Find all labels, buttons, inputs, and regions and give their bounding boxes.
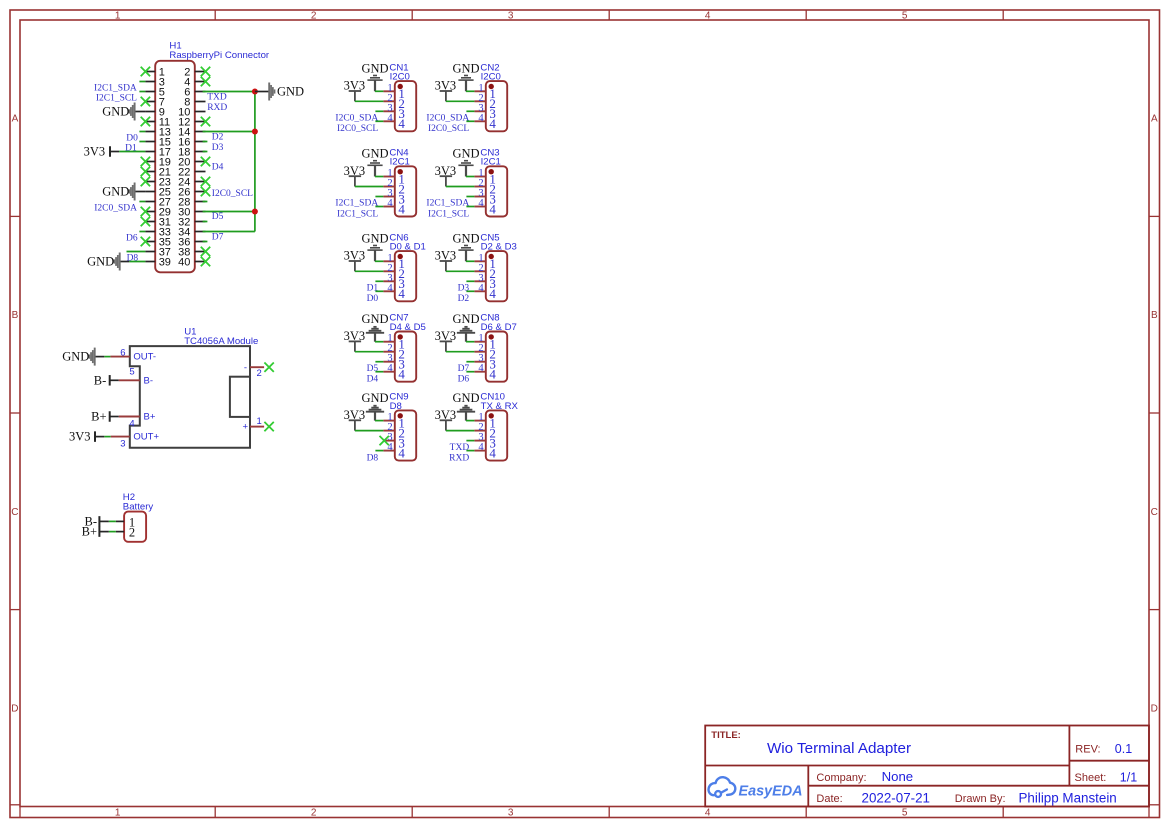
wire 3V3 to CN3 pin 2 bbox=[446, 186, 475, 188]
svg-text:None: None bbox=[882, 769, 914, 784]
svg-text:GND: GND bbox=[452, 312, 479, 326]
connector CN4 body bbox=[395, 166, 416, 216]
connector H2 body bbox=[124, 512, 146, 542]
svg-text:3: 3 bbox=[508, 11, 514, 22]
svg-text:4: 4 bbox=[478, 283, 484, 294]
svg-text:I2C0_SDA: I2C0_SDA bbox=[335, 114, 378, 124]
svg-text:I2C1_SDA: I2C1_SDA bbox=[335, 199, 378, 209]
svg-text:GND: GND bbox=[452, 147, 479, 161]
wire stub CN2 pin 4 bbox=[466, 120, 474, 122]
CN4 pin stubs bbox=[383, 177, 394, 207]
svg-text:GND: GND bbox=[87, 255, 114, 269]
svg-text:B-: B- bbox=[144, 375, 154, 386]
wire 3V3 to CN4 pin 2 bbox=[355, 186, 384, 188]
connector CN8 body bbox=[486, 332, 507, 382]
wire ground to CN10 pin 1 bbox=[466, 420, 474, 422]
svg-text:TXD: TXD bbox=[207, 93, 227, 103]
svg-text:4: 4 bbox=[705, 11, 711, 22]
svg-text:4: 4 bbox=[387, 363, 393, 374]
svg-text:A: A bbox=[12, 114, 19, 125]
svg-text:B+: B+ bbox=[91, 410, 106, 424]
CN4 inside pin numbers bbox=[398, 171, 405, 216]
svg-text:2: 2 bbox=[257, 368, 262, 379]
H1 left pin stubs bbox=[145, 72, 155, 262]
wire 3V3 to H1 pin 17 bbox=[119, 151, 145, 153]
H2 pin 1 stub bbox=[116, 520, 124, 522]
wire stub CN4 pin 4 bbox=[375, 206, 383, 208]
svg-text:4: 4 bbox=[489, 446, 496, 461]
CN4 pin-1 dot bbox=[398, 169, 403, 174]
CN3 outside pin numbers bbox=[478, 168, 484, 209]
wire ground to CN1 pin 1 bbox=[375, 90, 383, 92]
CN10 pin-1 dot bbox=[489, 413, 494, 418]
CN3 inside pin numbers bbox=[489, 171, 496, 216]
wire 3V3 to CN7 pin 2 bbox=[355, 351, 384, 353]
CN8 outside pin numbers bbox=[478, 333, 484, 374]
svg-text:1/1: 1/1 bbox=[1120, 770, 1137, 784]
wire ground to CN9 pin 1 bbox=[375, 420, 383, 422]
no-connect cross U1 pin 1 bbox=[264, 422, 273, 431]
svg-text:5: 5 bbox=[902, 808, 908, 819]
no-connect cross U1 pin 2 bbox=[264, 363, 273, 372]
CN2 pin-1 dot bbox=[489, 84, 494, 89]
CN8 pin-1 dot bbox=[489, 334, 494, 339]
wire H1 pin 34 to bus bbox=[203, 231, 255, 233]
power flag B- at H2 pin 1 bbox=[99, 520, 108, 522]
svg-text:4: 4 bbox=[398, 286, 405, 301]
wire B- to H2 pin 1 bbox=[109, 520, 116, 522]
power flag GND at H1 pin 6 bbox=[255, 91, 269, 93]
svg-text:I2C1_SCL: I2C1_SCL bbox=[96, 94, 137, 104]
svg-text:D6: D6 bbox=[458, 375, 470, 385]
svg-text:OUT+: OUT+ bbox=[133, 432, 159, 443]
junction at pin 30 wire bbox=[252, 209, 258, 215]
title block sheet row divider bbox=[808, 785, 1149, 787]
wire H1 pin 14 to bus bbox=[203, 131, 255, 133]
svg-text:D4: D4 bbox=[212, 163, 224, 173]
svg-text:1: 1 bbox=[257, 416, 262, 427]
CN6 inside pin numbers bbox=[398, 256, 405, 301]
svg-text:GND: GND bbox=[361, 391, 388, 405]
svg-text:I2C0_SCL: I2C0_SCL bbox=[212, 189, 253, 199]
svg-text:I2C0_SDA: I2C0_SDA bbox=[94, 204, 137, 214]
U1 pin 2 stub bbox=[250, 366, 264, 368]
wire stub CN7 pin 3 bbox=[375, 361, 383, 363]
svg-text:4: 4 bbox=[387, 283, 393, 294]
svg-text:B+: B+ bbox=[144, 412, 156, 423]
svg-text:D2: D2 bbox=[212, 133, 224, 143]
CN1 pin stubs bbox=[383, 91, 394, 121]
connector CN2 body bbox=[486, 81, 507, 131]
power flag GND at H1 pin 9 bbox=[135, 111, 146, 113]
svg-text:GND: GND bbox=[62, 350, 89, 364]
svg-text:GND: GND bbox=[361, 312, 388, 326]
svg-text:4: 4 bbox=[398, 446, 405, 461]
svg-text:D4: D4 bbox=[367, 375, 379, 385]
wire B+ to H2 pin 2 bbox=[109, 531, 116, 533]
svg-text:RXD: RXD bbox=[449, 453, 469, 463]
svg-text:GND: GND bbox=[452, 391, 479, 405]
wire GND to U1 pin 6 bbox=[104, 356, 110, 358]
U1 battery cell rectangle bbox=[230, 377, 250, 417]
CN5 pin stubs bbox=[474, 261, 485, 291]
svg-text:3V3: 3V3 bbox=[69, 430, 91, 444]
H1 left net stub wires bbox=[127, 82, 146, 252]
CN9 inside pin numbers bbox=[398, 416, 405, 461]
CN1 inside pin numbers bbox=[398, 86, 405, 131]
wire stub CN6 pin 4 bbox=[375, 290, 383, 292]
svg-text:RXD: RXD bbox=[207, 103, 227, 113]
wire stub CN1 pin 4 bbox=[375, 120, 383, 122]
svg-text:TXD: TXD bbox=[450, 443, 470, 453]
svg-text:D: D bbox=[11, 703, 18, 714]
CN2 outside pin numbers bbox=[478, 83, 484, 124]
wire stub CN9 pin 4 bbox=[375, 450, 383, 452]
U1 pin 3 stub bbox=[111, 436, 130, 438]
wire ground to CN5 pin 1 bbox=[466, 260, 474, 262]
U1 pin 5 stub bbox=[119, 379, 140, 381]
svg-text:I2C0_SCL: I2C0_SCL bbox=[428, 124, 469, 134]
CN3 pin stubs bbox=[474, 177, 485, 207]
svg-text:GND: GND bbox=[102, 185, 129, 199]
svg-text:4: 4 bbox=[489, 201, 496, 216]
wire stub CN3 pin 4 bbox=[466, 206, 474, 208]
wire stub CN4 pin 3 bbox=[375, 196, 383, 198]
svg-text:4: 4 bbox=[705, 808, 711, 819]
connector CN7 body bbox=[395, 332, 416, 382]
CN10 outside pin numbers bbox=[478, 412, 484, 453]
H1 no-connect crosses right bbox=[201, 67, 210, 266]
junction at pin 6 wire bbox=[252, 89, 258, 95]
power flag GND at H1 pin 39 bbox=[120, 261, 130, 263]
svg-text:B+: B+ bbox=[82, 525, 97, 539]
wire 3V3 to CN5 pin 2 bbox=[446, 270, 475, 272]
power flag GND at H1 pin 25 bbox=[135, 191, 146, 193]
svg-text:I2C1_SDA: I2C1_SDA bbox=[94, 84, 137, 94]
svg-text:0.1: 0.1 bbox=[1115, 742, 1132, 756]
connector CN10 body bbox=[486, 410, 507, 460]
svg-text:EasyEDA: EasyEDA bbox=[739, 783, 803, 799]
svg-text:39: 39 bbox=[159, 257, 171, 269]
CN7 inside pin numbers bbox=[398, 337, 405, 382]
CN4 outside pin numbers bbox=[387, 168, 393, 209]
U1 pin numbers bbox=[120, 347, 261, 449]
U1 pin 1 stub bbox=[250, 426, 264, 428]
svg-text:40: 40 bbox=[178, 257, 190, 269]
svg-text:2: 2 bbox=[129, 526, 135, 540]
svg-text:4: 4 bbox=[478, 363, 484, 374]
svg-text:D6: D6 bbox=[126, 234, 138, 244]
svg-text:4: 4 bbox=[478, 442, 484, 453]
wire ground to CN6 pin 1 bbox=[375, 260, 383, 262]
svg-text:Drawn By:: Drawn By: bbox=[955, 793, 1006, 805]
wire stub CN6 pin 3 bbox=[375, 280, 383, 282]
CN2 inside pin numbers bbox=[489, 86, 496, 131]
power flag B+ at H2 pin 2 bbox=[99, 531, 108, 533]
svg-text:I2C1_SCL: I2C1_SCL bbox=[337, 209, 378, 219]
CN6 pin stubs bbox=[383, 261, 394, 291]
CN5 pin-1 dot bbox=[489, 254, 494, 259]
svg-text:4: 4 bbox=[489, 286, 496, 301]
svg-text:D2: D2 bbox=[458, 294, 470, 304]
svg-text:GND: GND bbox=[452, 62, 479, 76]
title block outline bbox=[705, 726, 1149, 807]
CN1 pin-1 dot bbox=[398, 84, 403, 89]
wire 3V3 to CN2 pin 2 bbox=[446, 100, 475, 102]
CN5 inside pin numbers bbox=[489, 256, 496, 301]
svg-text:4: 4 bbox=[129, 418, 134, 429]
wire 3V3 to CN6 pin 2 bbox=[355, 270, 384, 272]
svg-text:1: 1 bbox=[115, 808, 121, 819]
wire H1 pin 6 to GND bbox=[203, 91, 255, 93]
svg-text:3V3: 3V3 bbox=[84, 145, 106, 159]
svg-text:I2C1_SDA: I2C1_SDA bbox=[426, 199, 469, 209]
wire ground to CN4 pin 1 bbox=[375, 176, 383, 178]
svg-text:D3: D3 bbox=[212, 143, 224, 153]
svg-text:I2C0_SCL: I2C0_SCL bbox=[337, 124, 378, 134]
power flag B- at U1 pin 5 bbox=[110, 379, 119, 381]
svg-text:B: B bbox=[12, 310, 19, 321]
H1 right net stub wires bbox=[203, 142, 208, 242]
U1 pin names bbox=[133, 352, 248, 443]
wire GND vertical bus bbox=[254, 92, 256, 232]
H1 right pin stubs bbox=[195, 72, 206, 262]
connector CN6 body bbox=[395, 251, 416, 301]
svg-text:D0: D0 bbox=[367, 294, 379, 304]
wire stub CN1 pin 3 bbox=[375, 110, 383, 112]
svg-text:Date:: Date: bbox=[816, 793, 842, 805]
svg-text:3: 3 bbox=[120, 438, 125, 449]
H2 pin 2 stub bbox=[116, 531, 124, 533]
CN8 inside pin numbers bbox=[489, 337, 496, 382]
power flag GND at U1 pin 6 bbox=[95, 356, 105, 358]
svg-text:GND: GND bbox=[102, 105, 129, 119]
svg-text:GND: GND bbox=[361, 232, 388, 246]
svg-text:4: 4 bbox=[489, 367, 496, 382]
svg-text:GND: GND bbox=[452, 232, 479, 246]
power flag B+ at U1 pin 4 bbox=[110, 416, 119, 418]
svg-text:4: 4 bbox=[398, 201, 405, 216]
CN1 outside pin numbers bbox=[387, 83, 393, 124]
wire 3V3 to CN9 pin 2 bbox=[355, 430, 384, 432]
wire stub CN5 pin 4 bbox=[466, 290, 474, 292]
wire H1 pin 30 to bus bbox=[203, 211, 255, 213]
svg-text:5: 5 bbox=[902, 11, 908, 22]
wire stub CN7 pin 4 bbox=[375, 371, 383, 373]
svg-text:I2C1_SCL: I2C1_SCL bbox=[428, 209, 469, 219]
junction at pin 14 wire bbox=[252, 129, 258, 135]
title block title row divider bbox=[705, 765, 1069, 767]
svg-text:4: 4 bbox=[478, 113, 484, 124]
svg-text:2: 2 bbox=[311, 11, 317, 22]
svg-text:4: 4 bbox=[387, 113, 393, 124]
title block right column divider bbox=[1068, 726, 1070, 786]
svg-text:2: 2 bbox=[311, 808, 317, 819]
svg-text:1: 1 bbox=[115, 11, 121, 22]
title block rev cell divider bbox=[1069, 760, 1149, 762]
svg-text:D8: D8 bbox=[367, 453, 379, 463]
wire stub CN3 pin 3 bbox=[466, 196, 474, 198]
svg-text:GND: GND bbox=[361, 62, 388, 76]
CN6 pin-1 dot bbox=[398, 254, 403, 259]
svg-text:Company:: Company: bbox=[816, 772, 866, 784]
wire ground to CN7 pin 1 bbox=[375, 341, 383, 343]
EasyEDA logo cloud bbox=[709, 777, 736, 797]
wire 3V3 to CN10 pin 2 bbox=[446, 430, 475, 432]
svg-text:Philipp Manstein: Philipp Manstein bbox=[1019, 791, 1117, 806]
svg-text:B-: B- bbox=[94, 373, 107, 387]
svg-text:D: D bbox=[1151, 703, 1158, 714]
title block logo cell divider bbox=[807, 766, 809, 807]
svg-text:5: 5 bbox=[129, 366, 134, 377]
svg-text:2022-07-21: 2022-07-21 bbox=[862, 791, 931, 806]
svg-text:GND: GND bbox=[277, 85, 304, 99]
svg-text:-: - bbox=[244, 362, 247, 373]
connector CN9 body bbox=[395, 410, 416, 460]
CN7 outside pin numbers bbox=[387, 333, 393, 374]
svg-text:Sheet:: Sheet: bbox=[1075, 772, 1107, 784]
svg-text:4: 4 bbox=[398, 367, 405, 382]
svg-text:OUT-: OUT- bbox=[133, 352, 156, 363]
CN9 pin stubs bbox=[383, 421, 394, 451]
svg-text:C: C bbox=[1151, 507, 1158, 518]
wire stub CN8 pin 4 bbox=[466, 371, 474, 373]
U1 pin 6 stub bbox=[110, 356, 129, 358]
wire stub CN2 pin 3 bbox=[466, 110, 474, 112]
connector CN5 body bbox=[486, 251, 507, 301]
svg-text:4: 4 bbox=[478, 198, 484, 209]
CN5 outside pin numbers bbox=[478, 253, 484, 294]
wire 3V3 to U1 pin 3 bbox=[104, 436, 110, 438]
svg-text:3: 3 bbox=[508, 808, 514, 819]
CN3 pin-1 dot bbox=[489, 169, 494, 174]
CN2 pin stubs bbox=[474, 91, 485, 121]
svg-text:RaspberryPi Connector: RaspberryPi Connector bbox=[169, 50, 270, 61]
svg-text:D0: D0 bbox=[126, 134, 138, 144]
H2 pin numbers bbox=[129, 515, 135, 539]
power flag 3V3 at U1 pin 3 bbox=[95, 436, 104, 438]
svg-text:C: C bbox=[11, 507, 18, 518]
CN10 pin stubs bbox=[474, 421, 485, 451]
module U1 body bbox=[130, 346, 250, 448]
svg-text:B: B bbox=[1151, 310, 1158, 321]
CN9 pin-1 dot bbox=[398, 413, 403, 418]
CN9 outside pin numbers bbox=[387, 412, 393, 453]
U1 pin 4 stub bbox=[119, 416, 140, 418]
svg-text:+: + bbox=[242, 422, 248, 433]
CN6 outside pin numbers bbox=[387, 253, 393, 294]
svg-text:A: A bbox=[1151, 114, 1158, 125]
connector H1 body bbox=[155, 61, 195, 272]
wire ground to CN3 pin 1 bbox=[466, 176, 474, 178]
svg-text:Wio Terminal Adapter: Wio Terminal Adapter bbox=[767, 740, 911, 757]
CN7 pin-1 dot bbox=[398, 334, 403, 339]
svg-text:GND: GND bbox=[361, 147, 388, 161]
svg-text:TITLE:: TITLE: bbox=[711, 730, 741, 741]
connector CN3 body bbox=[486, 166, 507, 216]
svg-text:4: 4 bbox=[489, 116, 496, 131]
wire 3V3 to CN8 pin 2 bbox=[446, 351, 475, 353]
svg-text:I2C0_SDA: I2C0_SDA bbox=[426, 114, 469, 124]
CN7 pin stubs bbox=[383, 342, 394, 372]
svg-text:4: 4 bbox=[387, 198, 393, 209]
svg-text:REV:: REV: bbox=[1075, 744, 1100, 756]
connector CN1 body bbox=[395, 81, 416, 131]
H1 pin numbers bbox=[159, 67, 191, 269]
wire ground to CN8 pin 1 bbox=[466, 341, 474, 343]
wire stub CN10 pin 4 bbox=[466, 450, 474, 452]
wire stub CN5 pin 3 bbox=[466, 280, 474, 282]
wire stub CN8 pin 3 bbox=[466, 361, 474, 363]
CN8 pin stubs bbox=[474, 342, 485, 372]
no-connect cross CN9 pin 3 bbox=[380, 436, 389, 445]
CN10 inside pin numbers bbox=[489, 416, 496, 461]
svg-text:D5: D5 bbox=[212, 212, 224, 222]
wire stub CN10 pin 3 bbox=[466, 440, 474, 442]
wire 3V3 to CN1 pin 2 bbox=[355, 100, 384, 102]
wire ground to CN2 pin 1 bbox=[466, 90, 474, 92]
H1 no-connect crosses left bbox=[141, 67, 150, 246]
svg-text:4: 4 bbox=[398, 116, 405, 131]
svg-text:D7: D7 bbox=[212, 233, 224, 243]
